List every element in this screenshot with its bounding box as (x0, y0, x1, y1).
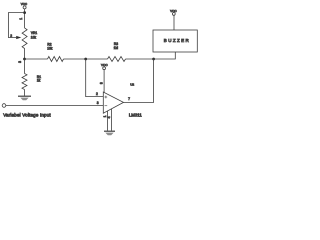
svg-text:LM311: LM311 (129, 112, 142, 117)
wire node C to op-amp pin 2 (86, 59, 104, 97)
potentiometer VR1 (10, 18, 37, 63)
wire VCC to op-amp pin 8 (103, 70, 105, 93)
resistor R3 (108, 42, 126, 61)
wire node B to R2 (25, 58, 48, 60)
svg-text:2: 2 (10, 34, 12, 38)
svg-text:2: 2 (96, 92, 98, 96)
wire R2 to node C (64, 58, 86, 60)
wire VCC to pot pin1 (24, 9, 26, 28)
svg-text:3: 3 (97, 101, 99, 105)
op-amp U2 LM311 (103, 82, 142, 117)
svg-text:10k: 10k (31, 35, 37, 39)
input terminal (2, 104, 6, 108)
svg-text:VR1: VR1 (31, 31, 37, 35)
svg-text:BUZZER: BUZZER (164, 38, 190, 43)
svg-text:1M: 1M (114, 46, 119, 50)
ground (below R1) (18, 96, 31, 100)
svg-text:1: 1 (19, 18, 23, 20)
wire node D to op-amp output (124, 59, 154, 102)
node B (23, 58, 26, 61)
resistor R2 (47, 42, 63, 61)
wire VCC to buzzer (173, 15, 175, 30)
svg-text:4: 4 (107, 116, 111, 118)
buzzer LS1 (153, 30, 197, 52)
node D (152, 58, 155, 61)
wire op-amp pin 4 down (111, 109, 113, 131)
wire wiper loop (8, 13, 24, 38)
svg-text:8: 8 (99, 82, 103, 84)
wire R1 to ground (24, 90, 26, 96)
node C (84, 58, 87, 61)
wire node C to R3 (86, 58, 108, 60)
wire buzzer to node D (154, 52, 176, 59)
power VCC op-amp (101, 63, 108, 69)
ground (op-amp) (104, 131, 115, 135)
svg-text:10k: 10k (47, 46, 53, 50)
resistor R1 (22, 74, 41, 90)
svg-text:7: 7 (128, 97, 130, 101)
power VCC top-left (21, 2, 28, 9)
wire op-amp pin 1 down (107, 111, 109, 131)
wire R3 to node D (126, 58, 154, 60)
node A (VCC junction) (23, 11, 26, 14)
wire pot pin3 to node B (24, 49, 26, 60)
svg-text:U2: U2 (130, 82, 134, 86)
wire input to op-amp pin 3 (6, 105, 104, 107)
svg-text:1k: 1k (37, 79, 41, 83)
svg-text:3: 3 (18, 61, 22, 63)
wire node B down to R1 (24, 59, 26, 74)
svg-text:Variabel Voltage Input: Variabel Voltage Input (3, 113, 51, 118)
power VCC buzzer (170, 9, 177, 15)
